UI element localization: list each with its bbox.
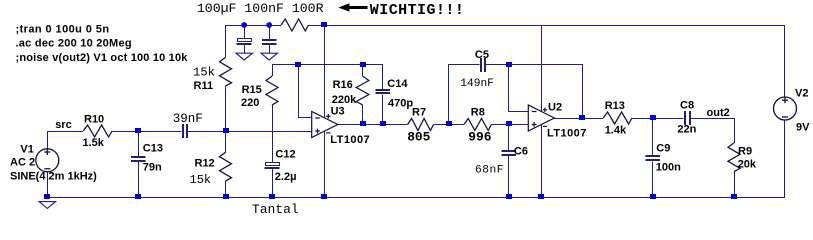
resistor R16 <box>356 76 369 105</box>
capacitor C9 <box>645 156 660 160</box>
wire C13 top lead <box>138 131 140 156</box>
svg-text:LT1007: LT1007 <box>330 134 370 146</box>
svg-text:15k: 15k <box>193 65 215 79</box>
svg-text:149nF: 149nF <box>460 78 494 90</box>
wire feedback net horizontal <box>272 64 383 66</box>
resistor R12 <box>220 152 232 181</box>
wire R15 to C12 <box>272 105 274 162</box>
junction C5/U2 -in <box>506 62 512 67</box>
wire R10 to 39nF <box>112 131 182 133</box>
svg-text:;noise v(out2) V1 oct 100 10 1: ;noise v(out2) V1 oct 100 10 10k <box>16 52 189 64</box>
resistor R10 <box>83 125 112 137</box>
voltage source V1 <box>36 149 59 172</box>
wire V2 top lead <box>784 25 786 97</box>
svg-text:470p: 470p <box>388 97 413 109</box>
wire R12 top lead <box>225 131 227 152</box>
capacitor C14 <box>376 90 391 93</box>
resistor R13 <box>603 112 632 124</box>
op-amp U3 LT1007 <box>312 112 338 138</box>
op-amp U2 LT1007 <box>528 105 554 131</box>
junction top rail / U3 V+ <box>321 22 327 27</box>
wire C14 bottom lead <box>382 94 384 124</box>
svg-text:V1: V1 <box>20 144 33 156</box>
wire R16 bottom lead <box>362 105 364 125</box>
svg-text:R15: R15 <box>242 84 262 96</box>
svg-text:V2: V2 <box>795 87 808 99</box>
svg-text:U3: U3 <box>331 106 345 118</box>
svg-text:805: 805 <box>407 129 430 144</box>
svg-text:.ac dec 200 10 20Meg: .ac dec 200 10 20Meg <box>16 38 132 50</box>
svg-text:20k: 20k <box>738 158 757 170</box>
wire R9 top lead <box>734 118 736 143</box>
svg-text:22n: 22n <box>677 123 696 135</box>
svg-text:C5: C5 <box>475 49 489 61</box>
junction feedback/R15/U3 -in <box>295 62 301 67</box>
svg-text:R7: R7 <box>412 107 426 119</box>
svg-text:Tantal: Tantal <box>252 202 299 217</box>
junction gnd C6 <box>506 194 512 199</box>
junction src/C13 <box>135 128 141 133</box>
ground under V1 <box>39 202 55 209</box>
capacitor 100nF (top) <box>262 40 277 44</box>
junction src/R11/R12 <box>223 128 229 133</box>
ground under 100nF <box>261 53 277 60</box>
junction dot 100nF on rail <box>266 22 272 28</box>
svg-text:;tran 0 100u 0 5n: ;tran 0 100u 0 5n <box>16 23 110 35</box>
svg-text:79n: 79n <box>143 161 162 173</box>
wire 100uF bottom lead <box>244 45 246 53</box>
junction dot 100uF on rail <box>241 22 247 28</box>
svg-text:src: src <box>55 119 72 131</box>
wire rail drop to R11 <box>225 25 227 57</box>
wire R12 bottom lead <box>225 181 227 197</box>
svg-text:R12: R12 <box>195 157 215 169</box>
resistor 100R (top rail) <box>281 19 309 31</box>
capacitor C13 <box>131 157 146 161</box>
svg-text:R11: R11 <box>194 80 214 92</box>
resistor R9 <box>728 143 740 172</box>
svg-text:15k: 15k <box>190 173 212 187</box>
wire 39nF to U3 +in <box>188 131 312 133</box>
svg-text:LT1007: LT1007 <box>547 127 587 139</box>
svg-text:C9: C9 <box>656 142 670 154</box>
capacitor 100uF electrolytic <box>237 39 252 45</box>
wire U3 V- pin <box>324 131 326 197</box>
svg-text:9V: 9V <box>796 121 810 133</box>
wire V1 top lead <box>47 131 49 149</box>
wire bottom ground rail <box>47 197 785 199</box>
junction gnd U2 V- <box>538 194 544 199</box>
junction R7/C5 <box>446 121 452 126</box>
svg-text:100n: 100n <box>656 161 681 173</box>
svg-text:2.2µ: 2.2µ <box>275 171 297 183</box>
junction U3 out/R16 <box>360 121 366 126</box>
svg-text:C6: C6 <box>514 146 528 158</box>
wire 100uF top lead <box>244 25 246 38</box>
wire V2 bottom lead <box>784 120 786 198</box>
junction U3 out/C14 <box>380 121 386 126</box>
wire R13 to C8 <box>632 118 684 120</box>
junction R8/C6/U2 +in <box>506 121 512 126</box>
svg-text:R8: R8 <box>471 107 485 119</box>
wire U2 V+ pin <box>541 25 543 112</box>
wire C12 bottom lead <box>272 168 274 197</box>
svg-text:WICHTIG!!!: WICHTIG!!! <box>370 2 465 19</box>
capacitor C8 <box>685 111 690 125</box>
wire U2 V- pin <box>541 125 543 198</box>
wire C9 top lead <box>652 118 654 156</box>
junction feedback/R16 <box>360 62 366 67</box>
svg-text:68nF: 68nF <box>475 165 504 177</box>
wire R16 top lead <box>362 65 364 76</box>
resistor R11 <box>220 57 232 86</box>
wire 100nF top lead <box>269 25 271 40</box>
capacitor 39nF <box>183 124 187 138</box>
junction U2 out/feedback <box>579 115 585 120</box>
svg-text:U2: U2 <box>548 101 562 113</box>
wire U2 output <box>554 118 603 120</box>
svg-text:C8: C8 <box>680 99 694 111</box>
wire src to R10 <box>47 131 83 133</box>
svg-text:R13: R13 <box>605 100 625 112</box>
wire U3 output <box>338 124 408 126</box>
wire R11 to src net <box>225 86 227 131</box>
wire R7 to C5 node <box>434 124 465 126</box>
wire C13 bottom lead <box>138 161 140 197</box>
wire to U3 -in <box>299 65 312 118</box>
wire C5 branch right to U2 out <box>486 65 583 119</box>
wire C6 bottom lead <box>508 156 510 197</box>
svg-text:R9: R9 <box>738 146 752 158</box>
svg-text:AC 2: AC 2 <box>10 156 35 168</box>
wire C8 to R9 <box>690 118 734 120</box>
junction gnd C12 <box>269 194 275 199</box>
voltage source V2 <box>774 97 797 120</box>
wire U2 -in feedback drop <box>509 65 529 112</box>
wire top rail right segment <box>309 25 786 27</box>
capacitor C12 tantalum <box>265 163 280 169</box>
junction gnd R9 <box>731 194 737 199</box>
svg-text:SINE(4 2m 1kHz): SINE(4 2m 1kHz) <box>10 171 97 183</box>
wire C14 top lead <box>382 65 384 89</box>
svg-text:220: 220 <box>241 97 259 109</box>
wire R15 top lead <box>272 65 274 76</box>
svg-text:out2: out2 <box>707 107 730 119</box>
junction gnd R12 <box>223 194 229 199</box>
junction R13/C9 <box>650 115 656 120</box>
wire R9 bottom lead <box>734 172 736 198</box>
wire C9 bottom lead <box>652 162 654 198</box>
svg-text:220k: 220k <box>332 94 357 106</box>
capacitor C6 <box>501 151 516 155</box>
svg-text:1.5k: 1.5k <box>83 137 105 149</box>
wire top rail left segment <box>226 25 282 27</box>
svg-text:R16: R16 <box>333 79 353 91</box>
wire U3 V+ pin <box>324 25 326 118</box>
svg-text:39nF: 39nF <box>173 112 203 126</box>
svg-text:R10: R10 <box>84 113 104 125</box>
svg-text:C13: C13 <box>143 143 163 155</box>
svg-text:996: 996 <box>468 129 491 144</box>
junction gnd C9 <box>650 194 656 199</box>
capacitor C5 <box>481 58 485 72</box>
resistor R8 <box>464 119 491 131</box>
junction gnd C13 <box>135 194 141 199</box>
ground under 100uF <box>236 53 252 60</box>
svg-text:1.4k: 1.4k <box>605 124 627 136</box>
arrow pointing to 100R <box>338 3 349 11</box>
svg-text:C14: C14 <box>387 78 408 90</box>
wire C5 branch left <box>449 65 480 125</box>
junction gnd U3 V- <box>321 194 327 199</box>
resistor R15 <box>266 76 278 105</box>
wire R8 to U2 +in <box>491 124 528 126</box>
resistor R7 <box>408 119 434 131</box>
svg-text:100µF 100nF 100R: 100µF 100nF 100R <box>197 1 324 16</box>
svg-text:C12: C12 <box>275 148 295 160</box>
wire 100nF bottom lead <box>269 44 271 53</box>
junction gnd V1 <box>44 194 50 199</box>
wire V1 bottom lead <box>47 172 49 198</box>
wire C6 top lead <box>508 125 510 152</box>
